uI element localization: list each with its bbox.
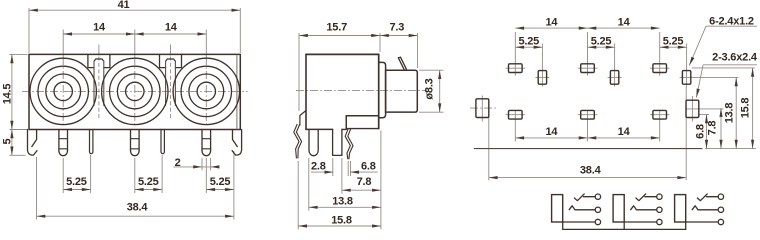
svg-text:14: 14 <box>165 22 178 34</box>
svg-text:7.3: 7.3 <box>389 21 404 33</box>
svg-text:14: 14 <box>93 22 106 34</box>
svg-text:5: 5 <box>1 138 13 144</box>
svg-text:6-2.4x1.2: 6-2.4x1.2 <box>709 15 754 27</box>
svg-text:5.25: 5.25 <box>138 176 159 188</box>
svg-text:41: 41 <box>118 0 130 11</box>
svg-text:2.8: 2.8 <box>311 160 326 172</box>
svg-text:2-3.6x2.4: 2-3.6x2.4 <box>712 51 758 63</box>
svg-text:13.8: 13.8 <box>724 103 736 124</box>
svg-text:5.25: 5.25 <box>66 176 87 188</box>
svg-text:15.8: 15.8 <box>331 215 352 227</box>
svg-text:5.25: 5.25 <box>210 176 231 188</box>
svg-text:14: 14 <box>618 16 631 28</box>
svg-text:14: 14 <box>545 16 558 28</box>
svg-text:14: 14 <box>618 126 631 138</box>
svg-text:14: 14 <box>545 126 558 138</box>
svg-text:5.25: 5.25 <box>663 36 684 48</box>
svg-text:6.8: 6.8 <box>361 160 376 172</box>
svg-text:7.8: 7.8 <box>357 176 372 188</box>
svg-text:38.4: 38.4 <box>580 165 602 177</box>
svg-text:15.8: 15.8 <box>740 98 752 119</box>
svg-text:ø8.3: ø8.3 <box>423 78 435 99</box>
svg-text:5.25: 5.25 <box>591 36 612 48</box>
svg-text:13.8: 13.8 <box>332 196 353 208</box>
svg-text:6.8: 6.8 <box>694 124 706 139</box>
svg-text:7.8: 7.8 <box>706 121 718 136</box>
svg-text:2: 2 <box>175 157 181 169</box>
svg-text:14.5: 14.5 <box>1 84 13 105</box>
svg-text:15.7: 15.7 <box>326 21 347 33</box>
svg-text:38.4: 38.4 <box>127 202 149 214</box>
svg-text:5.25: 5.25 <box>518 36 539 48</box>
